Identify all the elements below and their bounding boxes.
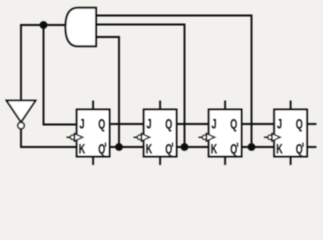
- wire: inverter output down and right to FF1 K input: [21, 129, 77, 147]
- svg-text:K: K: [276, 142, 283, 157]
- svg-text:Q: Q: [296, 117, 303, 132]
- FF1 pin label K: [79, 142, 86, 157]
- FF2 clock input (bubble + edge triangle): [134, 134, 150, 141]
- FF3 pin label K: [211, 142, 218, 157]
- JK flip-flop FF4: [274, 102, 307, 165]
- wire: FF2 Q to FF3 J: [177, 123, 209, 125]
- svg-text:Q: Q: [296, 142, 303, 157]
- FF2 pin label K: [146, 142, 153, 157]
- JK flip-flop FF3: [209, 102, 242, 165]
- junction on FF3 Q' net: [248, 143, 256, 151]
- FF3 pin label J: [211, 117, 216, 132]
- wire: FF4 Q' output stub: [307, 146, 316, 148]
- inverter (NOT gate, pointing down): [7, 101, 36, 129]
- svg-text:J: J: [211, 117, 216, 132]
- FF1 clock input (bubble + edge triangle): [67, 134, 83, 141]
- wire: FF1 Q to FF2 J: [110, 123, 144, 125]
- wire: gate input 2 feedback from FF2 Q' riser: [96, 25, 185, 148]
- svg-text:Q: Q: [98, 117, 105, 132]
- junction on FF2 Q' net: [181, 143, 189, 151]
- wire: gate input 3 feedback from FF1 Q' riser: [96, 37, 119, 147]
- wire: FF2 Q' to FF3 K: [177, 146, 209, 148]
- wire: FF3 Q to FF4 J: [242, 123, 275, 125]
- svg-text:J: J: [146, 117, 151, 132]
- junction on FF1 Q' net: [115, 143, 123, 151]
- JK flip-flop FF2: [144, 102, 177, 165]
- JK flip-flop FF1: [77, 102, 110, 165]
- wire: left vertical down to inverter input: [20, 25, 22, 100]
- wire: junction A down to FF1 J input: [44, 25, 77, 125]
- svg-text:Q: Q: [165, 117, 172, 132]
- FF2 pin label J: [146, 117, 151, 132]
- svg-text:K: K: [211, 142, 218, 157]
- svg-text:J: J: [277, 117, 282, 132]
- FF3 pin label Q: [230, 117, 237, 132]
- svg-text:K: K: [146, 142, 153, 157]
- wire: AND gate output to left vertical: [21, 24, 67, 26]
- FF3 pin label Q': [230, 142, 237, 157]
- svg-text:Q: Q: [98, 142, 105, 157]
- svg-text:Q: Q: [230, 142, 237, 157]
- FF4 pin label J: [277, 117, 282, 132]
- FF4 pin label Q: [296, 117, 303, 132]
- AND gate U1 (3-input, facing left): [66, 8, 97, 47]
- wire: gate input 1 feedback from FF3 Q' riser: [96, 16, 252, 148]
- svg-text:Q: Q: [230, 117, 237, 132]
- svg-text:K: K: [79, 142, 86, 157]
- FF3 clock input (bubble + edge triangle): [199, 134, 215, 141]
- FF1 pin label Q: [98, 117, 105, 132]
- svg-text:Q: Q: [165, 142, 172, 157]
- FF4 clock input (bubble + edge triangle): [265, 134, 281, 141]
- FF4 pin label K: [276, 142, 283, 157]
- FF1 pin label Q': [98, 142, 105, 157]
- svg-text:J: J: [79, 117, 84, 132]
- FF1 pin label J: [79, 117, 84, 132]
- wire: FF3 Q' to FF4 K: [242, 146, 275, 148]
- FF4 pin label Q': [296, 142, 303, 157]
- junction node A (gate output / J feed): [40, 21, 48, 29]
- FF2 pin label Q: [165, 117, 172, 132]
- FF2 pin label Q': [165, 142, 172, 157]
- wire: FF4 Q output stub: [307, 123, 316, 125]
- wire: FF1 Q' to FF2 K: [110, 146, 144, 148]
